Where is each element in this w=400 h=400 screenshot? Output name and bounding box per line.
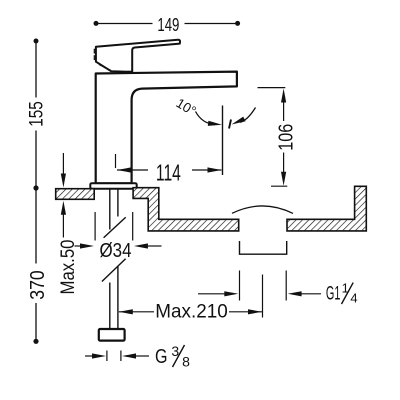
svg-text:370: 370 bbox=[26, 270, 49, 300]
G3/8 extension ticks bbox=[106, 351, 108, 362]
Max.210 dimension line bbox=[119, 311, 154, 313]
hose end fitting G3/8 bbox=[99, 329, 125, 341]
svg-text:Max.50: Max.50 bbox=[57, 239, 79, 294]
left vertical dimension line (155/370) bbox=[35, 41, 37, 341]
dimension 114 arrows bbox=[117, 167, 131, 172]
G1 1/4 extension lines bbox=[239, 271, 241, 301]
G1 1/4 right arrow bbox=[300, 293, 321, 295]
svg-text:149: 149 bbox=[157, 15, 179, 35]
Max.210 center extension line bbox=[262, 275, 264, 318]
svg-text:Max.210: Max.210 bbox=[155, 301, 228, 322]
10 degree left arc bbox=[196, 112, 216, 125]
svg-text:G1: G1 bbox=[326, 283, 341, 305]
dimension 149 line bbox=[96, 23, 238, 25]
dimension 106 bottom tick bbox=[271, 185, 287, 187]
svg-text:G: G bbox=[155, 346, 168, 368]
G3/8 right arrow bbox=[135, 355, 149, 357]
dimension 106 line and arrows bbox=[283, 100, 285, 121]
countertop left slab (hatched) bbox=[56, 189, 94, 200]
faucet body and spout bbox=[96, 72, 237, 184]
10 degree tilted tick bbox=[229, 120, 231, 129]
left dimension dots bbox=[34, 39, 39, 44]
basin right section (hatched) bbox=[287, 186, 366, 231]
Ø34 extension lines bbox=[94, 212, 96, 241]
svg-text:Ø34: Ø34 bbox=[100, 239, 132, 262]
svg-text:10°: 10° bbox=[173, 95, 198, 118]
G3/8 left arrow bbox=[85, 355, 93, 357]
handle left edge notches bbox=[94, 49, 96, 59]
tube break slash upper bbox=[104, 217, 126, 238]
basin floor arc over drain bbox=[232, 206, 293, 213]
faucet lever handle bbox=[96, 40, 180, 72]
svg-text:4: 4 bbox=[350, 291, 357, 306]
Max.50 dimension lower arrow bbox=[62, 213, 64, 238]
basin left section (hatched) bbox=[133, 188, 239, 231]
10 degree right arc bbox=[240, 108, 256, 123]
dimension 106 top tick bbox=[258, 87, 286, 89]
supply tube bbox=[110, 189, 118, 329]
svg-text:8: 8 bbox=[182, 354, 190, 370]
svg-text:155: 155 bbox=[27, 101, 48, 127]
dimension 114 extension tick bbox=[115, 154, 117, 168]
Ø34 left arrow bbox=[75, 245, 85, 247]
dimension 114 line bbox=[117, 169, 148, 171]
dimension 149 end dots bbox=[94, 21, 99, 26]
svg-text:114: 114 bbox=[156, 159, 181, 185]
lever underside inner line bbox=[99, 64, 111, 70]
Ø34 right arrow bbox=[147, 245, 162, 247]
Max.50 dimension upper arrow bbox=[62, 153, 64, 175]
G1 1/4 left arrow bbox=[198, 293, 226, 295]
faucet base flange bbox=[90, 183, 136, 189]
drain outline bbox=[240, 241, 287, 254]
tube break slash lower bbox=[102, 259, 126, 282]
water stream axis line bbox=[222, 106, 224, 176]
svg-text:106: 106 bbox=[276, 124, 298, 151]
